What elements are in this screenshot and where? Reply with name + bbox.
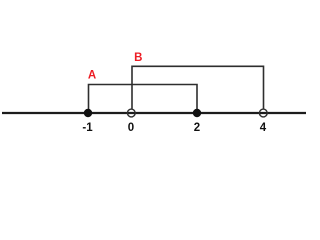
- closed point at 2: [193, 109, 201, 117]
- svg-text:2: 2: [194, 122, 200, 134]
- svg-text:A: A: [88, 70, 96, 82]
- open point at 0: [127, 109, 135, 117]
- interval bracket B (0 to 4): [132, 66, 264, 109]
- svg-text:-1: -1: [82, 122, 93, 134]
- interval bracket A (-1 to 2): [89, 85, 198, 113]
- svg-text:B: B: [134, 52, 142, 64]
- svg-text:0: 0: [128, 122, 134, 134]
- svg-text:4: 4: [260, 122, 267, 134]
- number line: [2, 112, 306, 114]
- closed point at -1: [84, 109, 92, 117]
- open point at 4: [259, 109, 267, 117]
